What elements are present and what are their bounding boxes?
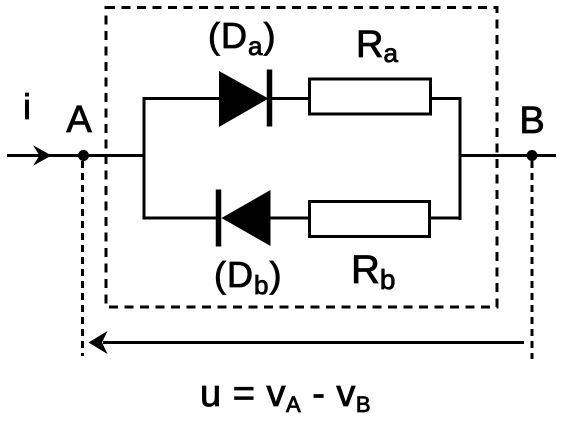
svg-text:(Db): (Db): [214, 254, 282, 300]
svg-text:B: B: [519, 100, 544, 142]
svg-text:A: A: [66, 99, 92, 141]
wire: top branch resistor-to-bus: [431, 97, 462, 100]
node B: [527, 150, 538, 161]
wire: right bus: [459, 97, 462, 220]
wire: bottom branch left segment: [143, 217, 217, 220]
wire: left bus: [143, 98, 146, 220]
node A: [78, 150, 89, 161]
wire: left lead into node A: [7, 154, 144, 157]
dashed drop from node B: [531, 161, 534, 359]
dashed network box: [106, 8, 497, 308]
wire: bottom branch resistor-to-bus: [430, 217, 462, 220]
svg-text:u = vA - vB: u = vA - vB: [200, 373, 371, 417]
wire: top branch diode-to-resistor: [272, 97, 310, 100]
svg-text:i: i: [23, 86, 31, 127]
wire: top branch left segment: [143, 97, 221, 100]
svg-text:(Da): (Da): [208, 15, 276, 61]
current arrow i on left lead: [33, 145, 52, 166]
dashed drop from node A: [81, 161, 84, 356]
diode (Da) cathode bar: [267, 70, 273, 127]
resistor Rb: [310, 202, 430, 237]
wire: bottom branch diode-to-resistor: [271, 217, 311, 220]
diode (Db) cathode bar: [216, 190, 222, 247]
voltage u reference line: [103, 341, 524, 344]
wire: right lead from bus through node B: [459, 154, 557, 157]
diode (Db) triangle: [222, 190, 271, 246]
resistor Ra: [310, 79, 431, 114]
voltage u arrowhead: [89, 331, 108, 354]
diode (Da) triangle: [219, 71, 269, 127]
